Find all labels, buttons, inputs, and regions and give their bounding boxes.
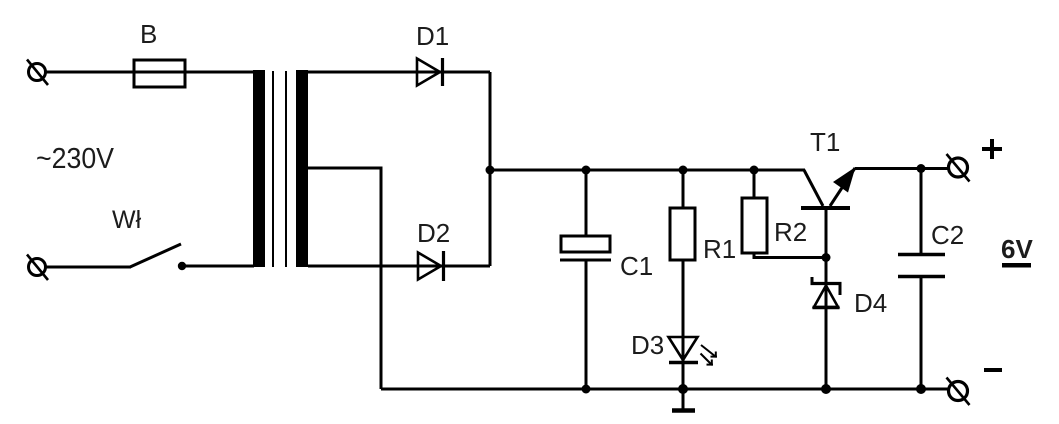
svg-text:Wł: Wł [112, 206, 142, 234]
node R2 top [750, 166, 759, 175]
plus sign [982, 139, 1002, 159]
svg-text:R1: R1 [703, 234, 736, 264]
svg-text:D3: D3 [631, 330, 664, 360]
svg-text:C1: C1 [620, 251, 653, 281]
resistor R1 [670, 208, 695, 260]
node rectifier output [486, 166, 495, 175]
LED D3 arrows [701, 345, 718, 366]
svg-text:T1: T1 [810, 127, 840, 157]
wire R1 top [682, 170, 685, 208]
transistor T1 collector [804, 170, 823, 206]
svg-text:C2: C2 [931, 220, 964, 250]
wire R2 bottom to base node [754, 253, 826, 258]
input terminal bottom-left [27, 255, 48, 281]
svg-text:D4: D4 [854, 288, 887, 318]
node R1 top [679, 166, 688, 175]
switch contact dot [178, 262, 186, 270]
transistor T1 emitter arrow [833, 167, 856, 193]
resistor R2 [742, 198, 767, 253]
wire R2 top [753, 170, 756, 198]
LED D3 [669, 337, 699, 363]
transformer primary bar [253, 70, 265, 267]
svg-text:D1: D1 [416, 21, 449, 51]
transformer center tap wire [308, 168, 381, 389]
wire input to transformer primary top [45, 71, 254, 74]
6V underline [1002, 263, 1031, 268]
wire D4 to rail [825, 308, 828, 389]
wire vertical D1/D2 join [489, 72, 492, 266]
node C2 bottom [916, 384, 926, 394]
wire T1 base down [825, 208, 828, 308]
diode D2 [418, 251, 444, 281]
transistor T1 base bar [801, 206, 850, 210]
svg-text:D2: D2 [417, 218, 450, 248]
capacitor C2 [898, 255, 945, 277]
wire C1 bottom [585, 260, 588, 389]
capacitor C1 [560, 236, 611, 260]
minus sign [984, 368, 1002, 372]
output terminal plus [947, 154, 970, 182]
transformer core lines [272, 71, 274, 267]
ground bar [672, 408, 695, 413]
wire main rail [490, 169, 805, 172]
wire secondary bottom to D2 [308, 265, 443, 268]
svg-text:6V: 6V [1001, 234, 1033, 264]
diode D1 [417, 58, 443, 86]
wire R1 to D3 [682, 260, 685, 362]
wire D1 to node [443, 71, 490, 74]
bottom rail [381, 388, 949, 391]
wire emitter rail to + terminal [855, 167, 949, 170]
input terminal top-left [27, 60, 48, 86]
wire D2 to node [444, 265, 490, 268]
wire C2 top [920, 168, 923, 254]
node base/R2/D4 [822, 253, 831, 262]
wire C2 bottom [920, 277, 923, 389]
transformer secondary bar [296, 70, 308, 267]
wire input to switch [45, 266, 131, 269]
node D4 bottom [821, 384, 831, 394]
wire D3 to rail [682, 362, 685, 389]
output terminal minus [947, 378, 970, 406]
svg-text:~230V: ~230V [36, 143, 115, 175]
zener D4 [811, 277, 842, 308]
wire secondary top to D1 [308, 71, 442, 74]
node C1 top [582, 166, 591, 175]
node C2 top [917, 164, 926, 173]
wire switch to transformer primary bottom [182, 265, 254, 268]
node D3 bottom [678, 384, 688, 394]
switch Wl blade [130, 244, 181, 267]
svg-text:B: B [140, 19, 157, 49]
svg-text:R2: R2 [774, 217, 807, 247]
node C1 bottom [582, 385, 591, 394]
ground stub [682, 389, 685, 409]
wire C1 top [585, 170, 588, 237]
fuse B [134, 60, 185, 87]
transistor T1 emitter [830, 168, 855, 206]
